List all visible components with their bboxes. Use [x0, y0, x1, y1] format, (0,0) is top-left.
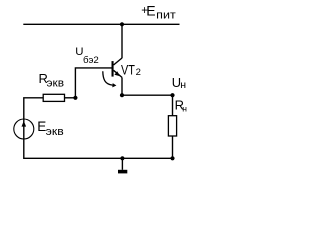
arrow: base-emitter voltage direction [103, 71, 117, 87]
svg-text:н: н [180, 79, 186, 91]
svg-text:экв: экв [46, 126, 64, 138]
node: ground junction on bottom rail [120, 156, 124, 160]
node: Rн bottom corner [170, 156, 174, 160]
resistor Rэкв [43, 94, 64, 101]
source Eэкв (EMF source circle with arrow) [14, 119, 34, 139]
svg-text:бэ2: бэ2 [83, 55, 99, 66]
node: Rн top corner [170, 93, 174, 97]
wire: base wire from transistor to left corner [75, 68, 111, 98]
resistor Rн [168, 116, 176, 136]
wire: +E supply rail (top) [23, 23, 179, 25]
wire: Rн top lead [172, 95, 174, 116]
wire: output node to Rн top corner [122, 94, 173, 96]
svg-text:экв: экв [47, 78, 65, 90]
svg-text:E: E [146, 2, 155, 18]
wire: Rн bottom lead [172, 136, 174, 158]
wire: Rэкв right lead to junction [65, 97, 76, 99]
ground [118, 158, 127, 173]
wire: source bottom to bottom rail corner [24, 139, 173, 158]
wire: collector to rail [121, 24, 123, 58]
node: junction at Rэкв right end [73, 96, 77, 100]
wire: Rэкв left lead, corner, down to source [24, 98, 43, 119]
wire: emitter down to output node [121, 77, 123, 95]
transistor VT2 (NPN) [112, 58, 123, 77]
svg-text:2: 2 [136, 67, 141, 78]
svg-text:н: н [182, 104, 187, 114]
node: output node at emitter [120, 93, 124, 97]
svg-text:VT: VT [121, 62, 135, 77]
node: junction of collector with supply rail [120, 22, 124, 26]
svg-text:пит: пит [156, 9, 176, 21]
